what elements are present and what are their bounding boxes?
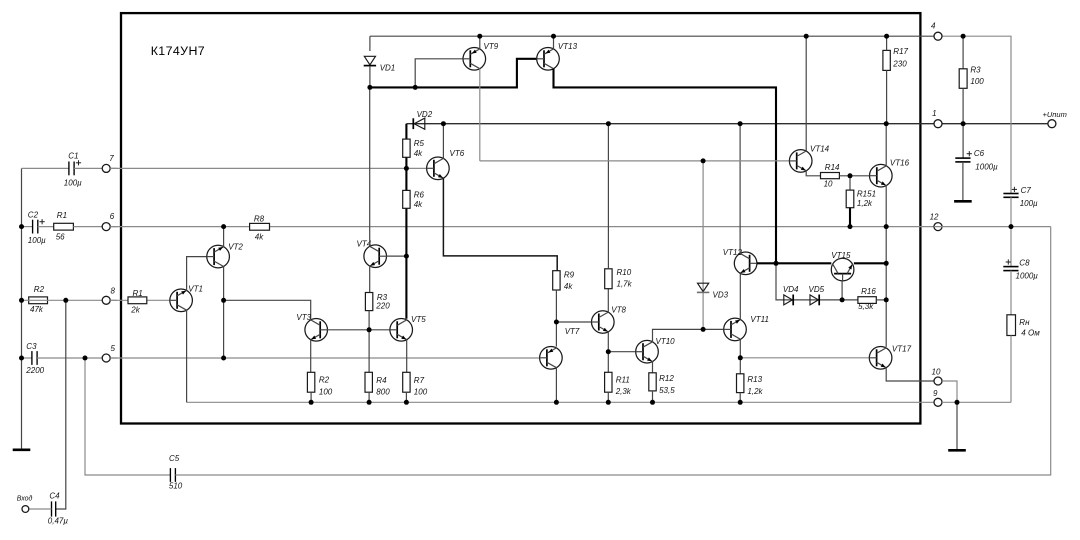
svg-text:100: 100 [970,77,984,86]
wire VT17 emitter to pin 10 [886,368,934,381]
junction R17 top rail [884,34,889,39]
wire VT9 base drop [415,59,463,88]
junction R14 R151 node [848,173,853,178]
wire VT12 collector to rail [739,124,741,254]
wire R1 to pin 6 [73,226,117,228]
wire VT3 base to VT5 base [328,329,390,331]
wire C2 to R1 [38,226,54,228]
ground C6 ground [954,200,972,203]
wire VT2 collector down [223,266,225,358]
svg-text:R8: R8 [254,214,265,223]
svg-text:R11: R11 [616,376,630,385]
wire C6 to ground [962,162,964,200]
transistor VT4 [364,245,387,268]
junction VT9 base emitter net [413,85,418,90]
junction VT9 emitter top rail [477,34,482,39]
wire VT10 emitter to R12 [652,362,654,373]
junction VT4 base thick net [404,254,409,259]
diode VD5 [810,295,819,306]
svg-text:Вход: Вход [17,494,33,502]
plus sign C2 polarity [40,219,45,224]
svg-text:VT5: VT5 [411,315,426,324]
wire VT11 collector to VT12 emitter [739,274,741,320]
plus sign C7 polarity [1012,187,1017,192]
wire VT6 collector to rail [442,124,444,159]
wire R9 to VT7 collector [555,290,557,347]
wire pin 8 to VT1 base [110,299,170,301]
svg-text:C6: C6 [974,149,985,158]
svg-text:VT6: VT6 [450,149,465,158]
junction VT2 collector pin5 net [221,356,226,361]
wire R3 external bottom to supply [962,88,964,123]
svg-text:4 Ом: 4 Ом [1021,329,1040,338]
svg-text:VT1: VT1 [188,284,203,293]
wire VT11 emitter to R13 [739,340,741,374]
wire C5 to feedback loop [175,227,1050,475]
junction R4 bus [367,400,372,405]
svg-text:1000µ: 1000µ [1016,272,1039,281]
svg-text:R151: R151 [857,189,876,198]
svg-text:R7: R7 [414,376,425,385]
transistor VT17 [869,347,892,370]
svg-text:VD5: VD5 [809,285,825,294]
svg-text:+Uпит: +Uпит [1043,110,1067,119]
transistor VT6 [427,157,450,180]
ground left input ground [13,448,31,451]
junction R151 pin12 net [848,224,853,229]
transistor VT13 [537,48,560,71]
svg-text:VD2: VD2 [417,110,433,119]
wire R3 external top [962,36,964,69]
wire VT4 base to thick net [387,255,407,257]
resistor R3 internal [365,293,372,311]
wire C4 to input terminal [29,508,51,510]
junction VT14 collector top rail [804,34,809,39]
svg-text:5,3k: 5,3k [858,302,874,311]
svg-text:4k: 4k [414,200,423,209]
wire VT13 collector to VT12 base drop [554,69,777,264]
plus sign C6 polarity [967,151,972,156]
wire VT1 emitter to bus [186,310,188,402]
wire VT8 emitter to R11 and VT10 base [607,332,609,373]
svg-text:100: 100 [414,388,428,397]
svg-text:R2: R2 [319,376,330,385]
svg-text:VT3: VT3 [296,313,311,322]
diode VD4 [784,295,793,306]
junction R3 external top rail [961,34,966,39]
wire VT2 emitter up [223,227,225,247]
svg-text:VT7: VT7 [565,327,580,336]
junction VT8 emitter node [606,349,611,354]
svg-text:7: 7 [109,154,114,163]
svg-text:0,47µ: 0,47µ [48,516,69,525]
svg-text:VT14: VT14 [810,144,830,153]
junction C2 left rail [19,224,24,229]
resistor R9 [553,271,560,290]
junction VT2 collector branch [221,298,226,303]
junction VT15 emitter x886 [884,261,889,266]
transistor VT11 [724,318,747,341]
junction VT11 emitter node [738,355,743,360]
svg-text:56: 56 [56,233,65,242]
pin 1 [934,120,942,128]
svg-text:1: 1 [932,109,936,118]
junction R2 left rail [19,298,24,303]
transistor VT9 [463,48,486,71]
svg-text:C5: C5 [169,454,180,463]
wire output ground stem [956,402,958,450]
transistor VT16 [870,164,893,187]
transistor VT5 [390,319,413,342]
pin 12 [934,223,942,231]
input terminal Вход [22,506,29,513]
wire C3 left lead [22,357,32,359]
svg-text:VD1: VD1 [380,64,396,73]
wire R151 top [849,176,851,190]
svg-text:R3: R3 [970,66,981,75]
junction VD1 VT4 collector [367,85,372,90]
wire VT8 collector to R10 [607,289,609,313]
svg-text:2k: 2k [130,305,140,314]
svg-text:4k: 4k [414,149,423,158]
junction R16 VT17 collector [884,297,889,302]
resistor R3 external [959,69,967,89]
wire VT9 emitter to top rail [479,36,481,49]
wire R16 to VT17 collector net [876,299,886,301]
wire R2 to bus [310,392,312,402]
junction R11 bus [606,400,611,405]
resistor Rн load [1007,315,1016,336]
diode VD2 [413,118,425,129]
resistor R4 [365,372,372,392]
wire C3 to pin 5 [37,357,117,359]
wire VT8 base [556,321,591,323]
wire x886 vertical pin12 to VT17 [885,227,887,347]
wire VD1 anode [369,36,371,51]
wire left rail to C2 [22,226,33,228]
wire R12 to bus [652,391,654,402]
transistor VT7 [540,347,563,370]
wire C1 to pin 7 [74,167,117,169]
wire pin 6 to pin 12 net [110,226,934,228]
pin 8 [102,296,110,304]
wire VT13 emitter to top rail [553,36,555,49]
transistor VT14 [789,150,812,173]
wire R17 top to rail [886,36,888,50]
wire emitter net 87 left segment [370,59,537,88]
resistor R2 external [29,297,48,304]
capacitor C4 [52,501,56,516]
svg-text:47k: 47k [30,305,44,314]
svg-text:100µ: 100µ [28,236,46,245]
wire C1 left lead [22,167,69,169]
wire VT4 collector up to VD1 node [369,87,371,246]
svg-text:C4: C4 [49,491,60,500]
junction VT2 emitter pin6 net [221,224,226,229]
svg-text:Rн: Rн [1019,318,1030,327]
svg-text:220: 220 [375,302,390,311]
junction VT12 collector rail [738,121,743,126]
svg-text:4: 4 [931,21,936,30]
svg-text:1,2k: 1,2k [857,199,873,208]
wire VT6 emitter to R9 [443,178,557,271]
pin 6 [102,223,110,231]
svg-text:C3: C3 [26,342,37,351]
resistor R10 [605,269,612,289]
junction VT13 emitter top rail [551,34,556,39]
wire R3 to base wire [368,311,370,330]
resistor R151 [846,190,854,208]
svg-text:4k: 4k [255,233,264,242]
junction C7 pin12 net [1009,224,1014,229]
svg-text:5: 5 [111,344,116,353]
wire VT5 emitter to R7 [406,340,408,373]
junction C3 left rail [19,356,24,361]
pin 5 [102,354,110,362]
junction R5 R6 VT6 base pin7 [404,166,409,171]
resistor R2 internal [307,372,314,392]
transistor VT12 [734,252,757,275]
resistor R13 [737,374,744,393]
wire VT3 emitter to R2 [310,340,312,373]
resistor R14 [821,173,840,179]
wire C8 to Rn [1010,271,1012,315]
junction VD3 cathode base line [701,327,706,332]
wire left ground rail [21,168,23,449]
wire R7 to bus [405,392,407,402]
wire R11 to bus [607,392,609,402]
transistor VT8 [592,311,615,334]
junction VT6 collector rail [441,121,446,126]
resistor R7 [403,372,410,392]
wire pin 10 to ground node [942,381,957,402]
wire supply rail VD2 to +U [406,123,1048,125]
resistor R17 [883,50,890,70]
svg-text:53,5: 53,5 [659,386,675,395]
svg-text:C2: C2 [28,210,39,219]
capacitor C6 [955,158,970,162]
pin 10 [934,377,942,385]
junction R13 bus [738,400,743,405]
svg-text:R2: R2 [34,285,45,294]
wire VT2 to VT3 collector [224,300,311,318]
svg-text:R17: R17 [893,47,908,56]
wire top bootstrap rail [370,35,934,37]
wire VT1 collector to VT2 base [187,257,207,291]
junction VT12 base VD4 drop [774,261,779,266]
svg-text:6: 6 [110,212,115,221]
junction R7 bus [404,400,409,405]
wire R13 to bus [739,393,741,403]
wire VT15 emitter right [854,262,886,264]
junction C5 branch [83,356,88,361]
wire pin 4 to C7 corner [942,36,1011,193]
wire R4 to bus [368,392,370,402]
resistor R11 [605,372,612,392]
svg-text:VT8: VT8 [611,306,626,315]
wire C5 branch from pin5 node [85,358,170,475]
svg-text:100: 100 [319,388,333,397]
svg-text:R12: R12 [659,374,674,383]
svg-text:510: 510 [169,482,183,491]
plus sign C1 polarity [76,160,81,165]
wire R151 to pin12 net [849,208,851,227]
svg-text:VT13: VT13 [558,42,578,51]
junction R3 external C6 rail [961,121,966,126]
wire VT16 collector up [885,124,887,167]
resistor R1 external [54,223,74,230]
wire VT12 base to VT15 [757,262,831,264]
capacitor C2 [33,220,38,234]
capacitor C1 [69,162,74,176]
junction R3 bottom base net [367,327,372,332]
svg-text:100µ: 100µ [1020,199,1038,208]
svg-text:VT16: VT16 [890,159,910,168]
wire R2 to pin 8 [22,299,118,301]
svg-text:800: 800 [376,388,390,397]
svg-text:R4: R4 [376,376,387,385]
junction C4 branch [63,298,68,303]
wire VT14 emitter to R14 [806,171,820,176]
wire VD1 cathode to emitter net [369,66,371,87]
svg-text:VT9: VT9 [484,42,499,51]
wire Rn to pin 9 net [1010,336,1012,403]
wire VT10 collector to VT11 base [653,329,724,342]
svg-text:VD3: VD3 [713,290,729,299]
transistor VT1 [170,289,193,312]
svg-text:10: 10 [824,180,833,189]
wire VD3 anode cathode line [702,161,704,330]
junction VT16 emitter pin12 net [884,224,889,229]
resistor R12 [649,373,656,391]
wire VT9 collector to VT14 base [480,160,790,162]
svg-text:R6: R6 [414,190,425,199]
wire VT9 collector down to VT14 line [479,69,481,161]
wire pin 7 net [110,167,426,169]
wire pin12 net to C8 [934,226,1051,228]
junction R9 VT7 VT8 base [554,320,559,325]
pin 4 [934,32,942,40]
wire VT16 emitter to pin12 net [885,185,887,226]
svg-text:C8: C8 [1019,259,1030,268]
junction R12 bus [650,400,655,405]
wire R4 top [368,330,370,373]
resistor R6 [403,190,410,208]
svg-text:R1: R1 [133,289,143,298]
wire R17 bottom to supply [886,70,888,123]
svg-text:C1: C1 [68,152,78,161]
wire C7 bottom to pin12 net [1010,197,1012,226]
svg-text:230: 230 [892,60,907,69]
wire VT11 emitter node to VT17 base [740,357,869,359]
svg-text:К174УН7: К174УН7 [151,44,205,58]
wire pin 9 to load node [942,401,1011,403]
resistor R8 [250,223,270,230]
wire C6 top lead [962,124,964,158]
svg-text:8: 8 [111,287,116,296]
pin 9 [934,398,942,406]
ground output ground [948,449,966,452]
wire R10 to rail [607,124,609,269]
pin 7 [102,164,110,172]
junction R2 internal bus [309,400,314,405]
wire VT14 collector to top rail [805,36,807,151]
capacitor C8 [1003,267,1018,271]
svg-text:VT17: VT17 [892,345,912,354]
capacitor C7 [1003,194,1018,198]
transistor VT2 [207,245,230,268]
svg-text:2200: 2200 [25,366,44,375]
wire C4 branch from pin8 node [56,300,66,509]
svg-text:VD4: VD4 [783,285,799,294]
svg-text:4k: 4k [564,282,573,291]
wire VD2 corner to R5 R6 VT5 collector [405,124,407,319]
wire C8 top lead [1010,227,1012,267]
svg-text:9: 9 [933,389,938,398]
svg-text:100µ: 100µ [64,179,82,188]
svg-text:R13: R13 [747,375,762,384]
junction VT15 base VD5 R16 [840,297,845,302]
svg-text:R5: R5 [414,139,425,148]
diode VD3 [697,283,709,292]
svg-text:10: 10 [932,367,941,376]
capacitor C5 [170,468,175,482]
transistor VT3 [305,319,328,342]
svg-text:VT2: VT2 [228,243,243,252]
svg-text:1,2k: 1,2k [747,387,763,396]
junction R10 rail [606,121,611,126]
svg-text:R16: R16 [861,287,876,296]
wire R14 to VT16 base [839,175,869,177]
resistor R5 [403,139,410,157]
resistor R1 internal [128,297,147,304]
wire VT15 base down [841,281,843,300]
wire VT12 base node down to VD4 [776,263,858,300]
supply terminal +Uпит [1048,120,1056,128]
svg-text:VT10: VT10 [656,337,676,346]
junction R17 VT16 collector rail [884,121,889,126]
svg-text:1000µ: 1000µ [975,162,998,171]
svg-text:2,3k: 2,3k [615,387,632,396]
transistor VT15 [831,258,854,281]
svg-text:C7: C7 [1021,186,1032,195]
svg-text:VT15: VT15 [831,251,851,260]
wire VT7 emitter to bus [555,368,557,403]
junction VT7 emitter bus [554,400,559,405]
IC boundary box К174УН7 [121,13,920,423]
transistor VT10 [636,340,659,363]
wire VT10 base [608,351,635,353]
junction pin10 ground node [955,400,960,405]
junction VD3 anode 160 line [701,158,706,163]
wire pin 5 to VT7 base [110,357,539,359]
svg-text:R14: R14 [825,163,840,172]
wire VT4 emitter to R3 [369,266,371,293]
svg-text:R10: R10 [617,268,632,277]
svg-text:VT11: VT11 [750,315,769,324]
diode VD1 [364,56,376,65]
resistor R16 [858,297,876,304]
svg-text:R1: R1 [57,211,67,220]
plus sign C8 polarity [1006,259,1011,264]
svg-text:1,7k: 1,7k [617,280,633,289]
svg-text:R9: R9 [564,270,575,279]
svg-text:12: 12 [930,213,939,222]
wire ground bus [187,401,934,403]
capacitor C3 [32,351,37,365]
